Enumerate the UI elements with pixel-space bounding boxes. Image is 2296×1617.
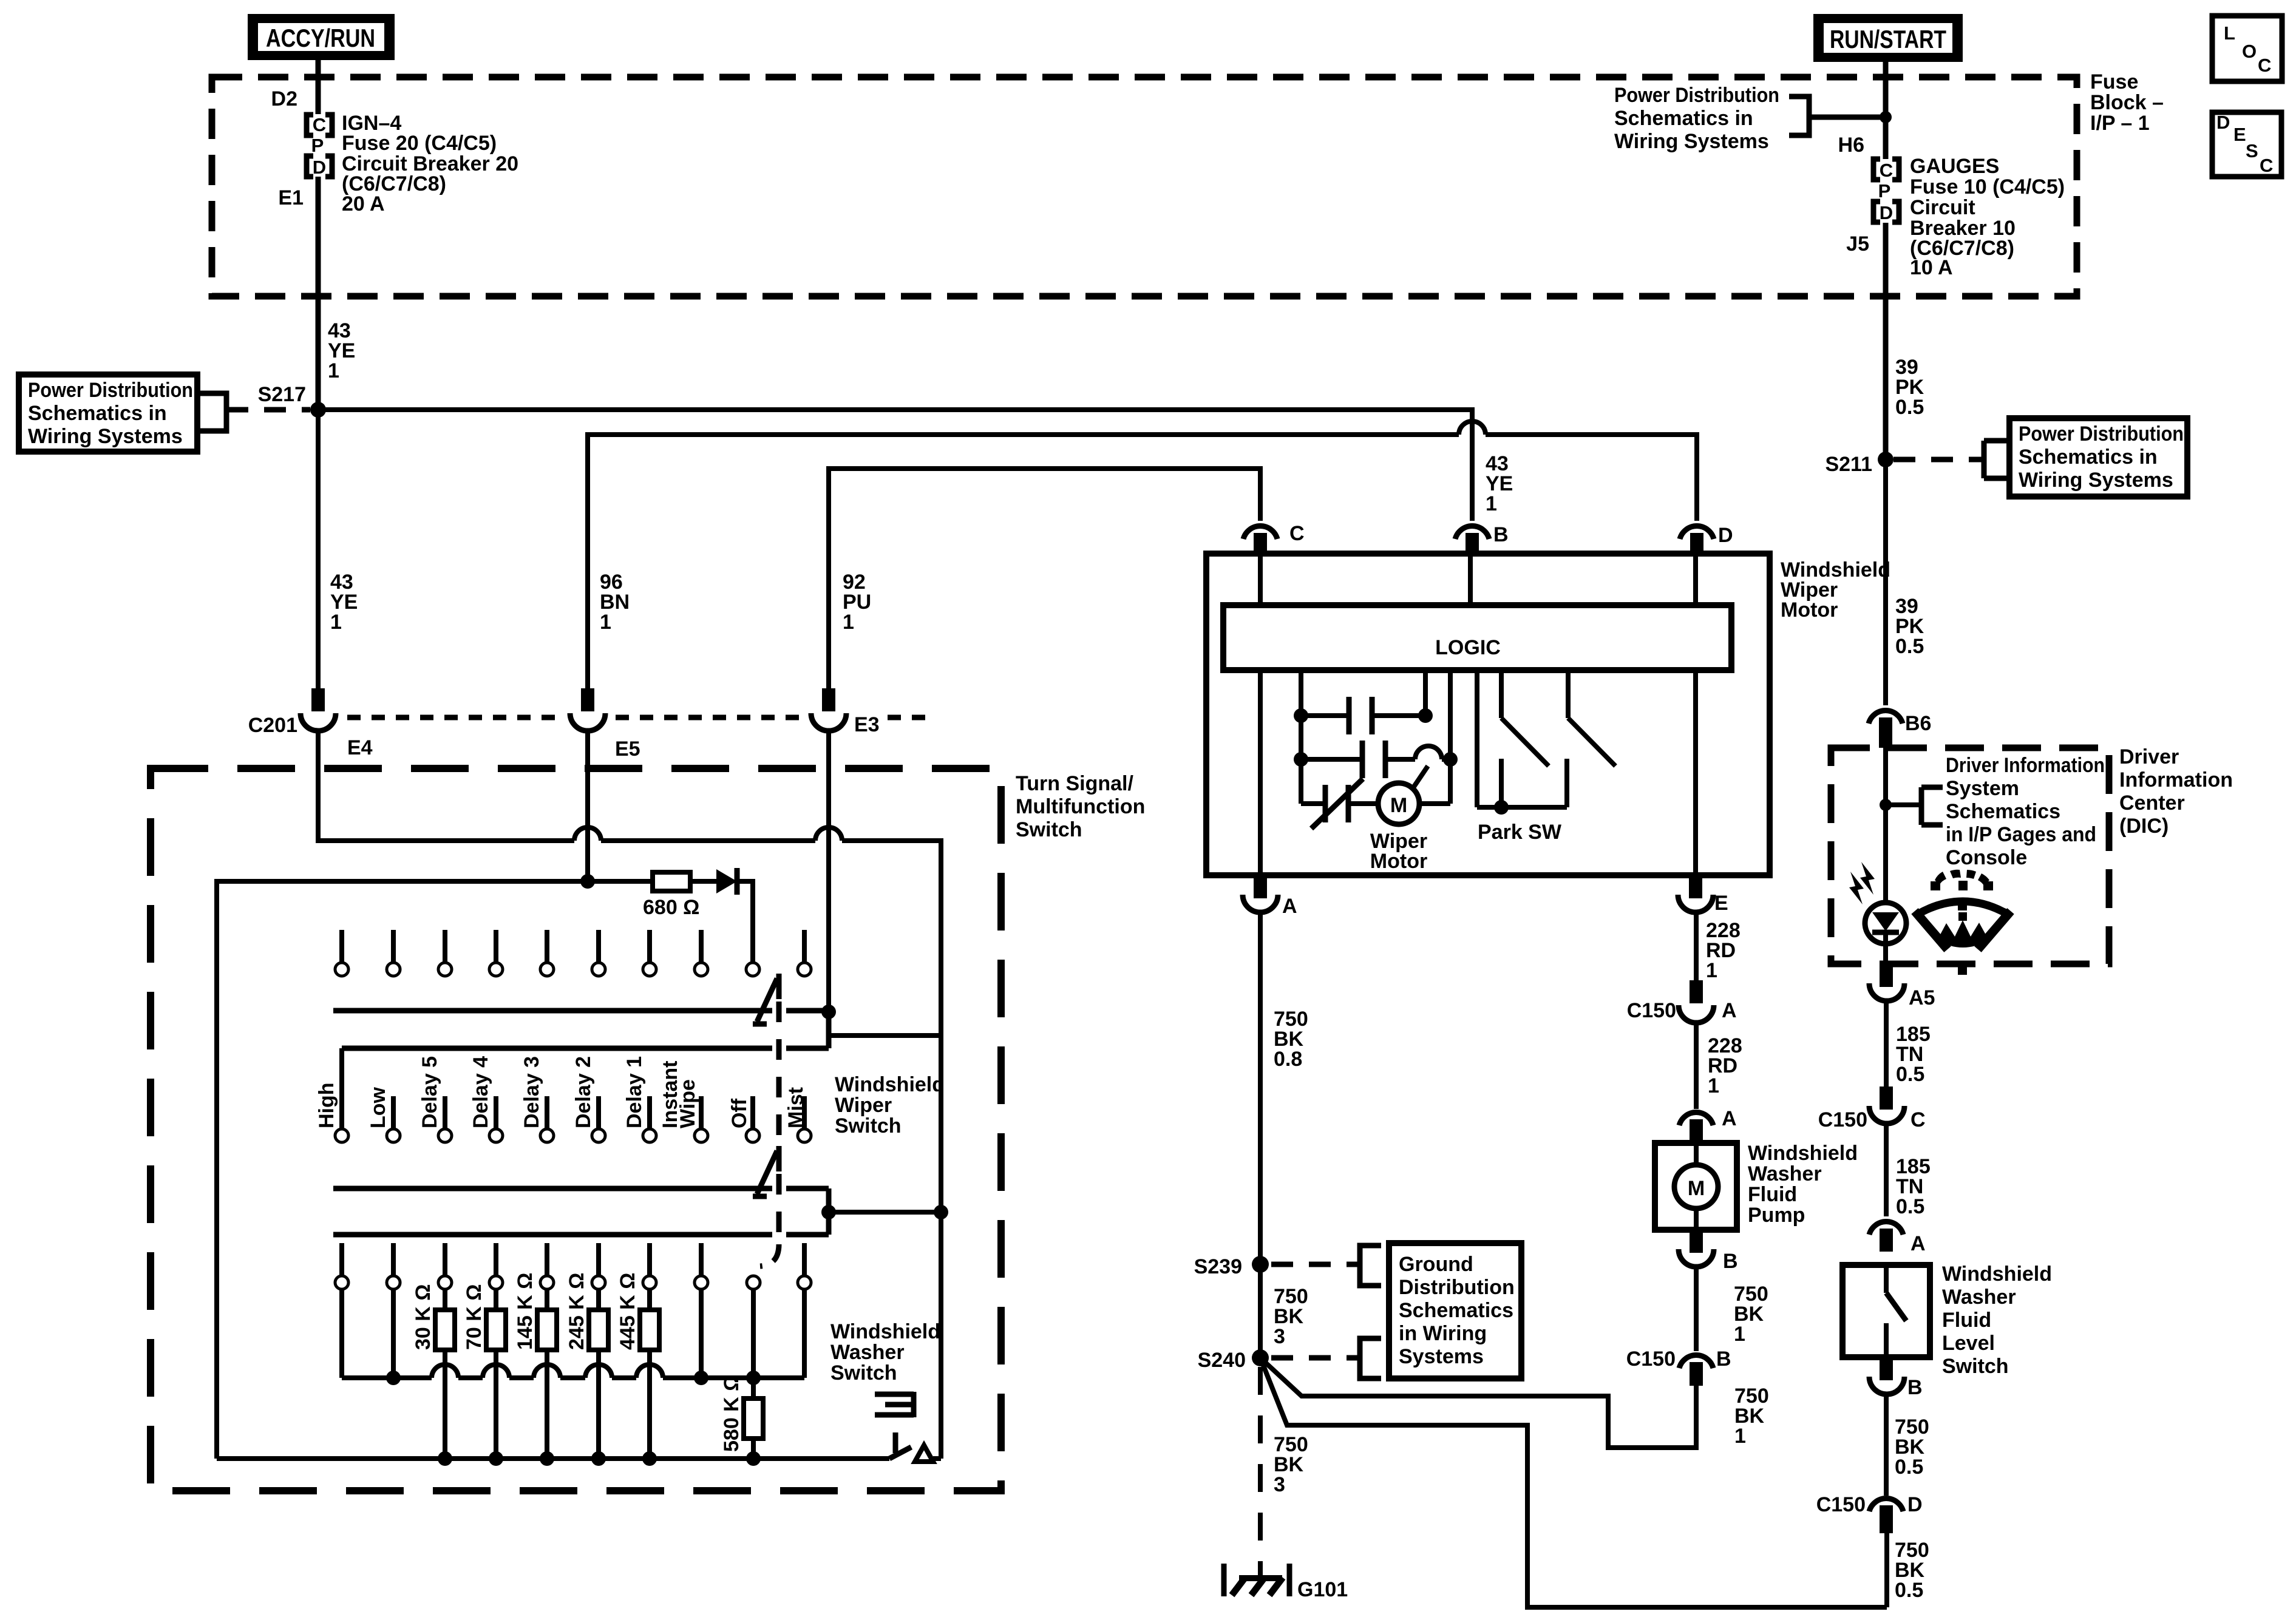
svg-text:Delay 5: Delay 5 bbox=[418, 1056, 441, 1128]
svg-text:445 K Ω: 445 K Ω bbox=[616, 1273, 639, 1350]
svg-text:1: 1 bbox=[1708, 1074, 1719, 1097]
svg-text:C150: C150 bbox=[1626, 1347, 1676, 1371]
svg-text:C: C bbox=[1911, 1108, 1926, 1131]
svg-text:in I/P Gages and: in I/P Gages and bbox=[1946, 823, 2096, 846]
white gaps in bus2 for mist blade linkage bbox=[772, 1184, 786, 1239]
svg-text:Circuit: Circuit bbox=[1910, 196, 1975, 219]
wire label 228 RD 1 (lower) bbox=[1708, 1034, 1742, 1097]
motor internal left drop from logic bbox=[1258, 670, 1263, 875]
svg-text:Motor: Motor bbox=[1781, 598, 1838, 622]
DIC internal branch junction bbox=[1880, 787, 1943, 825]
wire A5 to C150 C (185 TN 0.5) bbox=[1884, 1001, 1889, 1090]
motor pin C bbox=[1243, 522, 1305, 555]
wire label 39 PK 0.5 (lower) bbox=[1895, 595, 1924, 658]
svg-text:M: M bbox=[1390, 794, 1407, 817]
wire LED to A5 bbox=[1883, 944, 1888, 964]
svg-text:System: System bbox=[1946, 777, 2019, 800]
Turn Signal / Multifunction Switch dashed box bbox=[151, 768, 1001, 1491]
svg-text:D: D bbox=[313, 157, 326, 178]
S217 splice bbox=[258, 383, 326, 418]
svg-text:S240: S240 bbox=[1198, 1349, 1246, 1372]
wiper telltale icon bbox=[1915, 870, 2011, 975]
wire S240 to C150 D (750 BK 0.5 branch) bbox=[1260, 1358, 1887, 1607]
svg-text:S239: S239 bbox=[1194, 1255, 1242, 1278]
connector C201 pin E5 bbox=[570, 688, 640, 761]
level switch pin A bbox=[1869, 1222, 1926, 1255]
svg-text:1: 1 bbox=[1734, 1323, 1745, 1346]
wire label 185 TN 0.5 bbox=[1896, 1023, 1931, 1086]
svg-text:M: M bbox=[1688, 1177, 1705, 1200]
svg-text:RUN/START: RUN/START bbox=[1830, 25, 1946, 53]
S239 splice bbox=[1194, 1255, 1269, 1278]
svg-text:580 K Ω: 580 K Ω bbox=[720, 1375, 743, 1452]
svg-text:Console: Console bbox=[1946, 846, 2027, 869]
svg-text:B: B bbox=[1716, 1347, 1731, 1371]
wire C150 C to level switch A (185 TN 0.5) bbox=[1884, 1124, 1889, 1216]
capacitor network left rail bbox=[1299, 670, 1303, 804]
svg-text:Power Distribution: Power Distribution bbox=[1614, 84, 1779, 107]
connector C150 pin C bbox=[1818, 1086, 1926, 1131]
svg-text:C150: C150 bbox=[1818, 1108, 1867, 1131]
wire label 39 PK 0.5 bbox=[1895, 356, 1924, 419]
wire label 185 TN 0.5 (lower) bbox=[1896, 1155, 1931, 1218]
svg-text:H6: H6 bbox=[1838, 134, 1864, 157]
connector C150 pin B bbox=[1626, 1347, 1731, 1386]
connector C150 pin D bbox=[1816, 1493, 1923, 1533]
connector pin B6 bbox=[1869, 711, 1931, 748]
svg-text:ACCY/RUN: ACCY/RUN bbox=[266, 24, 375, 52]
ladder common bus with hops bbox=[342, 1364, 804, 1378]
fuse GAUGES CPD symbol bbox=[1873, 159, 1899, 223]
wire motor A down to S239 (750 BK 0.8) bbox=[1258, 912, 1263, 1358]
svg-text:B: B bbox=[1723, 1250, 1738, 1273]
svg-text:1: 1 bbox=[1486, 492, 1497, 515]
wire label 750 BK 0.5 (bottom) bbox=[1895, 1539, 1929, 1602]
svg-text:1: 1 bbox=[1734, 1425, 1746, 1448]
svg-text:A: A bbox=[1722, 999, 1737, 1022]
svg-text:Switch: Switch bbox=[1942, 1355, 2009, 1378]
svg-text:Motor: Motor bbox=[1370, 850, 1427, 873]
svg-text:B6: B6 bbox=[1905, 712, 1931, 735]
svg-text:Driver: Driver bbox=[2119, 745, 2179, 768]
level switch contacts bbox=[1886, 1265, 1906, 1357]
svg-text:20 A: 20 A bbox=[342, 192, 385, 215]
windshield washer fluid pump box bbox=[1655, 1143, 1737, 1230]
washer pump pin A bbox=[1679, 1107, 1737, 1143]
svg-text:Off: Off bbox=[728, 1098, 751, 1128]
svg-text:B: B bbox=[1493, 523, 1509, 546]
resistor 70 K bbox=[463, 1284, 506, 1459]
Windshield Washer Fluid Level Switch label bbox=[1942, 1263, 2052, 1378]
ACCY/RUN power label box bbox=[248, 14, 395, 60]
wire label 750 BK 0.8 bbox=[1274, 1008, 1308, 1071]
svg-text:Schematics: Schematics bbox=[1946, 800, 2060, 823]
wire label 750 BK 1 bbox=[1734, 1283, 1768, 1346]
svg-text:LOGIC: LOGIC bbox=[1435, 636, 1501, 659]
resistor 680 ohm bbox=[643, 872, 699, 919]
wiper switch row3 contacts bbox=[335, 1276, 811, 1289]
svg-text:Level: Level bbox=[1942, 1332, 1995, 1355]
wire label 750 BK 1 (lower) bbox=[1734, 1385, 1769, 1448]
svg-text:Center: Center bbox=[2119, 792, 2185, 815]
svg-text:Delay 3: Delay 3 bbox=[520, 1056, 543, 1128]
dashed wire S240 to G101 bbox=[1258, 1367, 1263, 1577]
svg-text:Fuse 20 (C4/C5): Fuse 20 (C4/C5) bbox=[342, 132, 497, 155]
svg-text:C: C bbox=[1289, 522, 1305, 545]
svg-text:L: L bbox=[2224, 22, 2235, 44]
S240 dashed branch to ground callout bbox=[1271, 1338, 1381, 1378]
ground G101 bbox=[1224, 1564, 1348, 1601]
wiper switch row1 contact stems bbox=[342, 930, 804, 963]
wire E1 down to S217 bbox=[316, 177, 321, 410]
svg-text:1: 1 bbox=[330, 611, 342, 634]
wire E3 riser to motor pin C (92 PU) bbox=[829, 469, 1260, 709]
Windshield Washer Switch label bbox=[830, 1320, 940, 1385]
S239 dashed branch to ground callout bbox=[1271, 1246, 1381, 1286]
indicator LED bbox=[1849, 862, 1906, 944]
wire E5 riser to motor pin D (96 BN) with hop over B wire bbox=[588, 421, 1697, 709]
svg-text:E5: E5 bbox=[615, 737, 640, 761]
svg-text:C: C bbox=[2260, 155, 2273, 176]
wire RUN/START down into fuse block bbox=[1883, 62, 1889, 159]
fuse IGN-4 text bbox=[342, 112, 518, 215]
motor pin B bbox=[1455, 523, 1509, 555]
Ground Distribution callout box bbox=[1389, 1243, 1521, 1378]
wire label 96 BN 1 bbox=[600, 571, 630, 634]
wire ACCY/RUN to fuse CPD bbox=[316, 60, 321, 114]
level switch pin B bbox=[1869, 1357, 1923, 1399]
wire B6 into DIC bbox=[1883, 748, 1888, 903]
Driver Information Center dashed box bbox=[1831, 748, 2109, 964]
fuse GAUGES text bbox=[1910, 155, 2065, 279]
svg-text:Washer: Washer bbox=[830, 1341, 905, 1364]
svg-text:Multifunction: Multifunction bbox=[1016, 795, 1145, 818]
svg-text:1: 1 bbox=[600, 611, 611, 634]
wire label 43 YE 1 (branch B) bbox=[1486, 452, 1513, 515]
resistor 30 K bbox=[412, 1284, 455, 1459]
svg-text:Switch: Switch bbox=[830, 1361, 897, 1385]
svg-text:Wiring Systems: Wiring Systems bbox=[1614, 130, 1769, 153]
svg-text:Wiring Systems: Wiring Systems bbox=[28, 425, 183, 448]
svg-text:1: 1 bbox=[328, 359, 339, 382]
S240 splice bbox=[1198, 1349, 1269, 1372]
motor pin D bbox=[1680, 524, 1733, 555]
svg-text:Fluid: Fluid bbox=[1748, 1183, 1797, 1206]
Driver Information System Schematics label bbox=[1946, 754, 2105, 869]
switch output bus to washer blade bbox=[217, 1456, 889, 1461]
connector C201 dotted separation line bbox=[347, 715, 929, 720]
svg-text:Washer: Washer bbox=[1942, 1286, 2016, 1309]
svg-text:Mist: Mist bbox=[784, 1087, 807, 1128]
wire C150 D down to S240 branch bbox=[1884, 1533, 1889, 1607]
svg-text:J5: J5 bbox=[1846, 232, 1869, 256]
svg-text:Windshield: Windshield bbox=[830, 1320, 940, 1343]
svg-text:Power Distribution: Power Distribution bbox=[2019, 422, 2184, 446]
wiper switch row2 contact stems bbox=[393, 1096, 804, 1129]
svg-text:C150: C150 bbox=[1627, 999, 1676, 1022]
wire S217 drop to C201 E4 bbox=[316, 410, 321, 708]
svg-text:0.5: 0.5 bbox=[1896, 1195, 1924, 1218]
Turn Signal/Multifunction Switch label bbox=[1016, 772, 1145, 841]
Power Distribution callout (top) bbox=[1614, 84, 1886, 153]
S211 splice bbox=[1825, 452, 1894, 476]
svg-text:E: E bbox=[2233, 124, 2246, 145]
svg-text:D: D bbox=[1718, 524, 1733, 547]
svg-text:C: C bbox=[313, 114, 326, 135]
LOC box bbox=[2212, 16, 2282, 81]
wire J5 down to S211 bbox=[1883, 223, 1889, 459]
wiper switch row1 mist blade bbox=[753, 974, 779, 1024]
LOGIC block bbox=[1223, 605, 1731, 670]
mist blade dashed linkage upper bbox=[776, 1002, 782, 1146]
svg-text:0.5: 0.5 bbox=[1895, 635, 1924, 658]
svg-text:O: O bbox=[2242, 41, 2257, 62]
svg-text:S211: S211 bbox=[1825, 453, 1872, 476]
Windshield Wiper Switch label bbox=[835, 1073, 945, 1137]
svg-text:C150: C150 bbox=[1816, 1493, 1866, 1516]
svg-text:1: 1 bbox=[1706, 959, 1717, 982]
wire C150 A to pump A (228 RD 1) bbox=[1694, 1023, 1699, 1109]
svg-text:E1: E1 bbox=[278, 186, 304, 209]
junction on RUN/START wire bbox=[1880, 111, 1892, 123]
svg-text:I/P – 1: I/P – 1 bbox=[2090, 112, 2150, 135]
svg-text:Distribution: Distribution bbox=[1399, 1276, 1515, 1299]
wire E4 down then right to switch feed with hops over E5 and E3 bbox=[318, 728, 941, 1459]
wiper switch High feed wire bbox=[342, 1048, 829, 1129]
svg-text:30 K Ω: 30 K Ω bbox=[412, 1284, 435, 1350]
output bus junctions bbox=[438, 1451, 761, 1466]
svg-text:Pump: Pump bbox=[1748, 1204, 1805, 1227]
svg-text:Fuse: Fuse bbox=[2090, 70, 2138, 93]
ladder bus junctions bbox=[386, 1371, 761, 1385]
wiper switch bus 1 bbox=[333, 1005, 941, 1048]
wire E3 down to wiper bus 1 bbox=[826, 728, 831, 1012]
Fuse Block - I/P - 1 dashed boundary box bbox=[212, 77, 2077, 296]
svg-text:Schematics in: Schematics in bbox=[1614, 107, 1753, 130]
svg-text:Fuse 10 (C4/C5): Fuse 10 (C4/C5) bbox=[1910, 175, 2065, 198]
capacitor row 1 bbox=[1294, 670, 1433, 734]
svg-text:Turn Signal/: Turn Signal/ bbox=[1016, 772, 1133, 795]
motor pin E bbox=[1678, 875, 1728, 915]
pump motor M bbox=[1674, 1143, 1718, 1230]
wire motor E down (228 RD 1) bbox=[1694, 912, 1699, 983]
svg-text:Wiring Systems: Wiring Systems bbox=[2019, 469, 2173, 492]
svg-text:Information: Information bbox=[2119, 768, 2233, 792]
svg-text:S217: S217 bbox=[258, 383, 306, 406]
svg-text:Ground: Ground bbox=[1399, 1253, 1473, 1276]
Windshield Wiper Motor label bbox=[1781, 558, 1890, 622]
RUN/START power label box bbox=[1813, 14, 1963, 62]
svg-text:1: 1 bbox=[843, 611, 854, 634]
svg-text:E: E bbox=[1714, 892, 1728, 915]
wire S240 to C150 B (750 BK 1) bbox=[1260, 1358, 1696, 1448]
svg-text:D: D bbox=[1907, 1493, 1923, 1516]
park switch bbox=[1477, 670, 1615, 844]
resistor 445 K bbox=[616, 1273, 659, 1459]
Driver Information Center (DIC) label bbox=[2119, 745, 2233, 838]
windshield washer fluid level switch box bbox=[1843, 1265, 1930, 1357]
svg-text:Schematics in: Schematics in bbox=[2019, 446, 2158, 469]
windshield wiper motor box bbox=[1206, 554, 1770, 875]
resistor 145 K bbox=[514, 1273, 557, 1459]
svg-text:A5: A5 bbox=[1909, 986, 1935, 1009]
svg-text:B: B bbox=[1907, 1376, 1923, 1399]
svg-text:Fluid: Fluid bbox=[1942, 1309, 1991, 1332]
fuse IGN-4 CPD symbol bbox=[307, 114, 332, 178]
svg-text:(DIC): (DIC) bbox=[2119, 815, 2169, 838]
svg-text:Switch: Switch bbox=[1016, 818, 1082, 841]
svg-text:P: P bbox=[311, 135, 324, 156]
svg-text:Delay 1: Delay 1 bbox=[623, 1056, 646, 1128]
connector C150 pin A bbox=[1627, 980, 1737, 1023]
resistor 580 K bbox=[720, 1375, 763, 1459]
Windshield Washer Fluid Pump label bbox=[1748, 1142, 1858, 1227]
pin risers to logic bbox=[1260, 554, 1696, 605]
wire label 43 YE 1 bbox=[328, 319, 355, 382]
wiper switch row2 contacts bbox=[335, 1129, 811, 1142]
svg-text:Block –: Block – bbox=[2090, 91, 2164, 114]
svg-text:245 K Ω: 245 K Ω bbox=[565, 1273, 588, 1350]
wire level B to C150 D (750 BK 0.5) bbox=[1884, 1394, 1889, 1496]
motor armature branch with breaker bbox=[1301, 779, 1379, 829]
svg-text:in Wiring: in Wiring bbox=[1399, 1322, 1487, 1345]
resistor 245 K bbox=[565, 1273, 608, 1459]
svg-text:Delay 4: Delay 4 bbox=[469, 1056, 492, 1128]
svg-text:70 K Ω: 70 K Ω bbox=[463, 1284, 486, 1350]
svg-text:Wipe: Wipe bbox=[676, 1079, 699, 1128]
mist blade dashed linkage lower bbox=[760, 1174, 779, 1266]
svg-text:Driver Information: Driver Information bbox=[1946, 754, 2105, 777]
wire label 43 YE 1 (E4 drop) bbox=[330, 571, 358, 634]
wiper switch row1 contacts bbox=[335, 963, 811, 976]
wiper switch bus 2 bbox=[333, 1188, 948, 1235]
svg-text:Delay 2: Delay 2 bbox=[572, 1056, 595, 1128]
Power Distribution callout box (right) bbox=[1894, 418, 2187, 497]
svg-text:Park SW: Park SW bbox=[1478, 821, 1562, 844]
svg-text:3: 3 bbox=[1274, 1473, 1285, 1496]
svg-text:Systems: Systems bbox=[1399, 1345, 1484, 1368]
svg-text:A: A bbox=[1722, 1107, 1737, 1130]
svg-text:High: High bbox=[315, 1082, 338, 1128]
svg-text:C: C bbox=[1880, 160, 1893, 181]
wire label 750 BK 3 bbox=[1274, 1285, 1308, 1348]
svg-text:Wiper: Wiper bbox=[835, 1094, 892, 1117]
svg-text:145 K Ω: 145 K Ω bbox=[514, 1273, 537, 1350]
wiper motor M bbox=[1370, 759, 1450, 873]
svg-text:P: P bbox=[1878, 180, 1891, 202]
connector C201 pin E3 bbox=[811, 688, 880, 736]
svg-text:10 A: 10 A bbox=[1910, 256, 1953, 279]
wire S211 down to B6 (39 PK 0.5) bbox=[1883, 459, 1888, 705]
svg-text:D: D bbox=[2216, 112, 2230, 133]
delay ladder taps into resistors bbox=[342, 1289, 804, 1378]
svg-text:Schematics in: Schematics in bbox=[28, 402, 167, 425]
svg-text:680 Ω: 680 Ω bbox=[643, 896, 699, 919]
wire label 750 BK 3 (below S240) bbox=[1274, 1433, 1308, 1496]
washer switch momentary contact bracket bbox=[875, 1392, 914, 1453]
svg-text:Low: Low bbox=[367, 1086, 390, 1128]
svg-text:0.5: 0.5 bbox=[1896, 1063, 1924, 1086]
svg-text:Schematics: Schematics bbox=[1399, 1299, 1513, 1322]
svg-text:Power Distribution: Power Distribution bbox=[28, 379, 193, 402]
diode in mist feed bbox=[690, 868, 753, 963]
connector C201 pin E4 bbox=[301, 688, 373, 759]
wire label 750 BK 0.5 bbox=[1895, 1415, 1929, 1479]
Power Distribution callout box (left) bbox=[19, 375, 310, 452]
wire label 92 PU 1 bbox=[843, 571, 871, 634]
680 ohm feed bus wire bbox=[217, 874, 653, 1459]
svg-text:Windshield: Windshield bbox=[835, 1073, 945, 1096]
svg-text:Switch: Switch bbox=[835, 1114, 902, 1137]
svg-text:A: A bbox=[1282, 895, 1297, 918]
svg-text:Windshield: Windshield bbox=[1748, 1142, 1858, 1165]
svg-text:0.5: 0.5 bbox=[1895, 1579, 1923, 1602]
washer pump pin B bbox=[1679, 1230, 1738, 1273]
wire label 228 RD 1 bbox=[1706, 919, 1741, 982]
motor internal right drop from logic bbox=[1693, 670, 1698, 875]
connector pin A5 bbox=[1869, 964, 1935, 1009]
svg-text:C: C bbox=[2258, 55, 2271, 76]
wire E5 down to 680 ohm feed node bbox=[585, 728, 590, 881]
wire pump B to C150 B (750 BK 1) bbox=[1694, 1267, 1699, 1351]
switch position labels bbox=[315, 1056, 807, 1128]
svg-text:Washer: Washer bbox=[1748, 1162, 1822, 1185]
svg-text:D: D bbox=[1880, 202, 1893, 223]
svg-text:S: S bbox=[2246, 140, 2258, 161]
svg-text:G101: G101 bbox=[1297, 1578, 1348, 1601]
svg-text:C201: C201 bbox=[248, 714, 297, 737]
svg-text:A: A bbox=[1911, 1232, 1926, 1255]
wiper switch row2 mist blade bbox=[753, 1146, 779, 1196]
washer switch blade and contact arrow bbox=[889, 1445, 941, 1462]
svg-text:0.5: 0.5 bbox=[1895, 1456, 1923, 1479]
wiper switch row3 contact stems bbox=[342, 1243, 804, 1276]
wire S217 to motor pin B (43 YE) bbox=[318, 410, 1472, 521]
white gaps in bus for mist blade linkage bbox=[772, 1006, 786, 1053]
svg-text:3: 3 bbox=[1274, 1325, 1285, 1348]
DESC box bbox=[2212, 112, 2281, 177]
capacitor row 2 with hop bbox=[1294, 670, 1458, 778]
svg-text:0.8: 0.8 bbox=[1274, 1048, 1302, 1071]
svg-text:GAUGES: GAUGES bbox=[1910, 155, 1999, 178]
svg-text:Windshield: Windshield bbox=[1942, 1263, 2052, 1286]
svg-text:E3: E3 bbox=[854, 713, 880, 736]
svg-text:D2: D2 bbox=[271, 87, 297, 110]
svg-text:E4: E4 bbox=[347, 736, 373, 759]
motor pin A bbox=[1243, 875, 1297, 918]
svg-text:0.5: 0.5 bbox=[1895, 396, 1924, 419]
